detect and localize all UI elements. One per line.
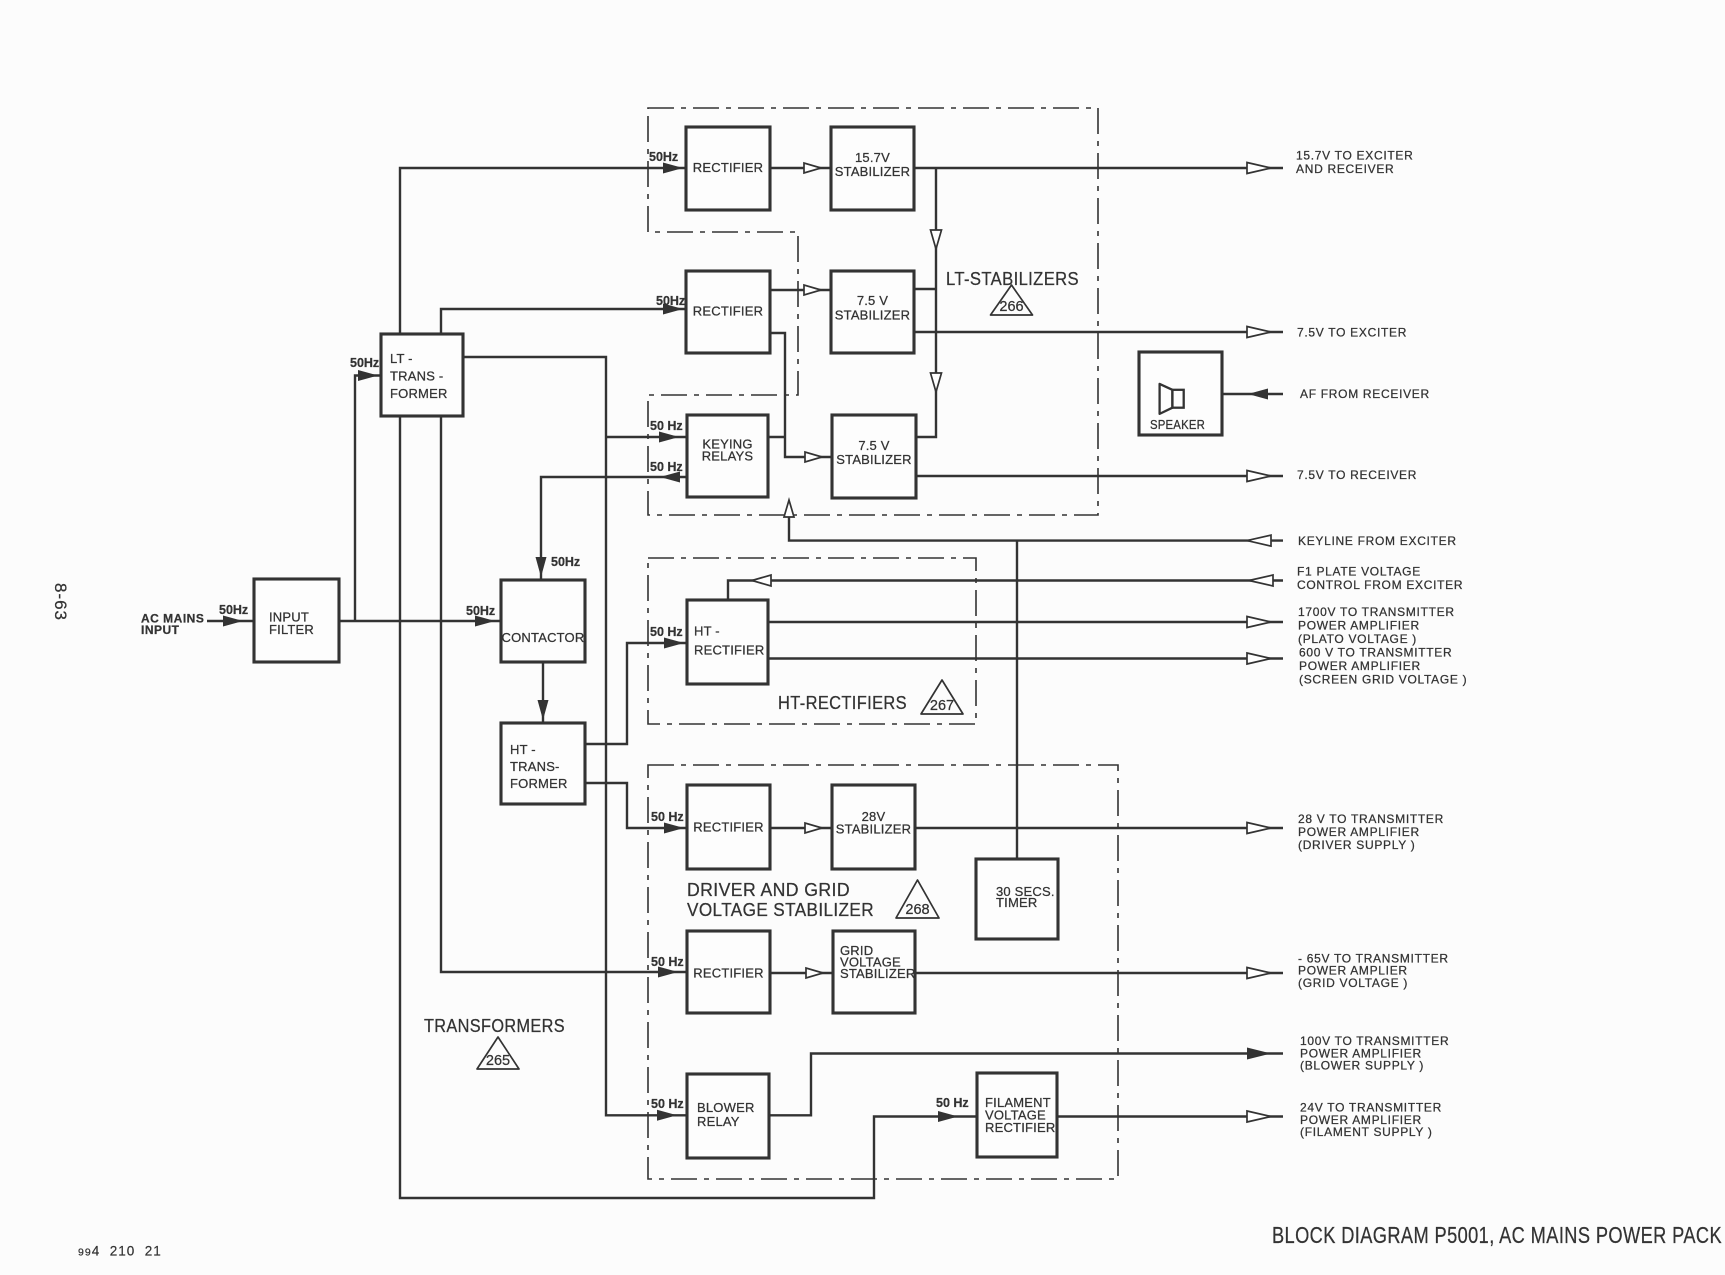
label AF FROM RECEIVER [1300, 387, 1430, 401]
wire 28V STABILIZER output [915, 823, 1283, 834]
label 50Hz at KEYING RELAYS lower [650, 460, 683, 474]
wire BLOWER RELAY output 100V [769, 1048, 1283, 1116]
block rectifier (7.5V chain) [686, 271, 770, 353]
block KEYING RELAYS [687, 415, 768, 497]
svg-text:F1 PLATE VOLTAGE: F1 PLATE VOLTAGE [1297, 565, 1421, 579]
label KEYLINE FROM EXCITER [1298, 534, 1457, 548]
block FILAMENT VOLTAGE RECTIFIER [977, 1073, 1057, 1157]
wire daisy chain 15.7V output down to 7.5V stabilizers [914, 168, 942, 437]
svg-text:AF FROM RECEIVER: AF FROM RECEIVER [1300, 387, 1430, 401]
document number 994 210 21 [78, 1244, 162, 1259]
wire HT-RECTIFIER output 600V [768, 653, 1283, 664]
wire rectifier to 7.5V STABILIZER upper [770, 285, 831, 295]
svg-text:STABILIZER: STABILIZER [835, 308, 910, 323]
label output 7.5V TO EXCITER [1297, 325, 1407, 339]
svg-text:267: 267 [930, 698, 954, 714]
block 15.7V STABILIZER [831, 127, 914, 210]
svg-text:1700V TO TRANSMITTER: 1700V TO TRANSMITTER [1298, 605, 1455, 619]
label output 100V TO TRANSMITTER POWER AMPLIFIER (BLOWER SUPPLY) [1300, 1034, 1449, 1072]
svg-text:HT -: HT - [694, 624, 720, 639]
svg-text:50 Hz: 50 Hz [650, 460, 683, 474]
wire 7.5V STABILIZER output to exciter [914, 327, 1283, 338]
svg-text:STABILIZER: STABILIZER [840, 966, 915, 981]
svg-text:50 Hz: 50 Hz [936, 1096, 969, 1110]
svg-text:994 210 21: 994 210 21 [78, 1244, 162, 1259]
svg-text:BLOCK DIAGRAM P5001, AC MAINS: BLOCK DIAGRAM P5001, AC MAINS POWER PACK [1272, 1222, 1722, 1248]
svg-text:CONTROL FROM EXCITER: CONTROL FROM EXCITER [1297, 578, 1463, 592]
svg-text:TRANSFORMERS: TRANSFORMERS [424, 1016, 565, 1036]
label AC MAINS INPUT [141, 611, 204, 637]
svg-text:POWER AMPLIFIER: POWER AMPLIFIER [1298, 825, 1420, 839]
svg-text:(DRIVER SUPPLY ): (DRIVER SUPPLY ) [1298, 838, 1415, 852]
svg-text:266: 266 [999, 299, 1023, 315]
wire F1 PLATE VOLTAGE CONTROL into HT-RECTIFIER [728, 575, 1283, 600]
wire rectifier to 28V STABILIZER [770, 823, 832, 833]
svg-text:RELAYS: RELAYS [702, 449, 754, 464]
wire FILAMENT VOLTAGE RECTIFIER output 24V [1057, 1111, 1283, 1122]
wire LT-TRANSFORMER right to KEYING RELAYS and BLOWER RELAY [463, 357, 687, 1121]
label 50Hz at BLOWER RELAY input [651, 1097, 684, 1111]
block GRID VOLTAGE STABILIZER [833, 931, 915, 1013]
wire rectifier lower output via keying to second 7.5V STABILIZER [768, 333, 832, 462]
label group TRANSFORMERS [424, 1016, 565, 1036]
svg-text:STABILIZER: STABILIZER [835, 164, 910, 179]
wire AF FROM RECEIVER into speaker [1222, 389, 1283, 400]
wire 50Hz LT-TRANSFORMER top to rectifier (15.7V chain) [400, 163, 686, 335]
svg-text:(GRID VOLTAGE ): (GRID VOLTAGE ) [1298, 976, 1408, 990]
svg-text:FORMER: FORMER [510, 776, 568, 791]
label 50Hz at rectifier 7.5V chain [656, 294, 685, 308]
block LT-TRANSFORMER [381, 334, 463, 416]
svg-text:TIMER: TIMER [996, 895, 1037, 910]
triangle symbol 265 [477, 1037, 519, 1069]
svg-text:7.5V TO EXCITER: 7.5V TO EXCITER [1297, 325, 1407, 339]
page number 8-63 (rotated) [51, 583, 70, 621]
label 50Hz at grid rectifier input [651, 955, 684, 969]
svg-text:RECTIFIER: RECTIFIER [693, 966, 763, 981]
svg-text:50 Hz: 50 Hz [650, 419, 683, 433]
wire 50Hz branch up to LT-TRANSFORMER [355, 370, 381, 621]
svg-text:50 Hz: 50 Hz [651, 1097, 684, 1111]
triangle symbol 267 [921, 680, 963, 714]
triangle symbol 266 [991, 285, 1033, 315]
svg-text:50 Hz: 50 Hz [651, 810, 684, 824]
label 50Hz at CONTACTOR coil [551, 555, 580, 569]
block rectifier (grid chain) [687, 931, 770, 1013]
svg-text:50Hz: 50Hz [219, 603, 248, 617]
wire LT-TRANSFORMER bottom to grid rectifier [441, 416, 687, 978]
label output -65V TO TRANSMITTER POWER AMPLIER (GRID VOLTAGE) [1298, 951, 1449, 989]
wire HT-TRANSFORMER stub up to HT-RECTIFIER [585, 638, 687, 745]
svg-text:RECTIFIER: RECTIFIER [693, 160, 763, 175]
label output 1700V TO TRANSMITTER POWER AMPLIFIER (PLATO VOLTAGE) [1298, 605, 1455, 646]
wire LT-TRANSFORMER bottom to FILAMENT VOLTAGE RECTIFIER (24V chain) [400, 416, 977, 1198]
wire AC mains input into INPUT FILTER [207, 616, 254, 627]
label output 600V TO TRANSMITTER POWER AMPLIFIER (SCREEN GRID VOLTAGE) [1299, 645, 1467, 686]
label 50Hz at KEYING RELAYS input [650, 419, 683, 433]
label F1 PLATE VOLTAGE CONTROL FROM EXCITER [1297, 565, 1463, 593]
wire GRID VOLTAGE STABILIZER output [915, 968, 1283, 979]
svg-text:INPUT: INPUT [141, 623, 180, 637]
wire 50Hz INPUT FILTER to CONTACTOR [339, 616, 501, 627]
svg-text:POWER AMPLIFIER: POWER AMPLIFIER [1299, 659, 1421, 673]
group boundary DRIVER AND GRID VOLTAGE STABILIZER unit 268 (dash-dot box) [648, 765, 1118, 1179]
svg-text:7.5V TO RECEIVER: 7.5V TO RECEIVER [1297, 468, 1417, 482]
svg-text:AND RECEIVER: AND RECEIVER [1296, 162, 1394, 176]
svg-text:STABILIZER: STABILIZER [836, 822, 911, 837]
wire rectifier to GRID VOLTAGE STABILIZER [770, 968, 833, 978]
block HT-RECTIFIER [687, 600, 768, 684]
label 50Hz at rectifier 15.7V chain [649, 150, 678, 164]
block HT-TRANSFORMER [501, 723, 585, 804]
wire KEYING RELAYS to CONTACTOR coil [536, 472, 688, 581]
svg-text:50 Hz: 50 Hz [651, 955, 684, 969]
wire 50Hz LT-TRANSFORMER top to rectifier (7.5V chain) [441, 304, 686, 335]
svg-text:DRIVER AND GRID: DRIVER AND GRID [687, 880, 850, 900]
label 50Hz at HT-RECTIFIER input [650, 625, 683, 639]
svg-text:(BLOWER SUPPLY ): (BLOWER SUPPLY ) [1300, 1059, 1424, 1073]
svg-text:15.7V TO EXCITER: 15.7V TO EXCITER [1296, 149, 1413, 163]
svg-text:HT-RECTIFIERS: HT-RECTIFIERS [778, 693, 907, 713]
svg-text:RECTIFIER: RECTIFIER [985, 1120, 1055, 1135]
label 50Hz at LT-TRANSFORMER input [350, 356, 379, 370]
svg-text:SPEAKER: SPEAKER [1150, 418, 1205, 432]
label output 24V TO TRANSMITTER POWER AMPLIFIER (FILAMENT SUPPLY) [1300, 1101, 1442, 1139]
wire rectifier to 15.7V STABILIZER [770, 163, 831, 173]
svg-text:(SCREEN GRID VOLTAGE ): (SCREEN GRID VOLTAGE ) [1299, 673, 1467, 687]
svg-text:15.7V: 15.7V [855, 150, 890, 165]
block SPEAKER with speaker icon [1139, 352, 1222, 435]
svg-text:(PLATO VOLTAGE ): (PLATO VOLTAGE ) [1298, 632, 1417, 646]
label 50Hz at FILAMENT VOLTAGE RECTIFIER input [936, 1096, 969, 1110]
block rectifier (28V chain) [687, 785, 770, 869]
svg-text:RELAY: RELAY [697, 1114, 740, 1129]
svg-text:7.5 V: 7.5 V [858, 438, 889, 453]
triangle symbol 268 [896, 880, 939, 918]
label group LT-STABILIZERS [946, 269, 1079, 289]
svg-text:RECTIFIER: RECTIFIER [694, 643, 764, 658]
svg-text:FILTER: FILTER [269, 622, 314, 637]
svg-text:50Hz: 50Hz [649, 150, 678, 164]
svg-text:50Hz: 50Hz [350, 356, 379, 370]
group boundary HT-RECTIFIERS unit 267 (dash-dot box) [648, 558, 976, 724]
svg-text:RECTIFIER: RECTIFIER [693, 304, 763, 319]
title BLOCK DIAGRAM P5001, AC MAINS POWER PACK [1272, 1222, 1722, 1248]
wire HT-RECTIFIER output 1700V [768, 617, 1283, 628]
svg-text:TRANS -: TRANS - [390, 369, 443, 384]
svg-text:TRANS-: TRANS- [510, 759, 560, 774]
svg-text:268: 268 [905, 902, 929, 918]
label group HT-RECTIFIERS [778, 693, 907, 713]
block BLOWER RELAY [687, 1074, 769, 1158]
wire 15.7V STABILIZER output [914, 163, 1283, 174]
svg-text:KEYLINE FROM EXCITER: KEYLINE FROM EXCITER [1298, 534, 1457, 548]
label output 7.5V TO RECEIVER [1297, 468, 1417, 482]
svg-text:FORMER: FORMER [390, 386, 448, 401]
svg-text:50 Hz: 50 Hz [650, 625, 683, 639]
group boundary LT-STABILIZERS unit 266 (dash-dot box with left notch) [648, 108, 1098, 515]
svg-text:50Hz: 50Hz [551, 555, 580, 569]
wire KEYLINE FROM EXCITER to keying relays and 30 secs timer [784, 500, 1283, 859]
svg-text:7.5 V: 7.5 V [857, 293, 888, 308]
block 7.5V STABILIZER (receiver) [832, 415, 916, 498]
wire HT-TRANSFORMER stub down to 28V rectifier [585, 783, 687, 834]
label output 15.7V TO EXCITER AND RECEIVER [1296, 149, 1413, 177]
svg-text:50Hz: 50Hz [656, 294, 685, 308]
svg-text:28 V TO TRANSMITTER: 28 V TO TRANSMITTER [1298, 812, 1444, 826]
svg-text:600 V TO TRANSMITTER: 600 V TO TRANSMITTER [1299, 645, 1452, 659]
svg-text:BLOWER: BLOWER [697, 1100, 755, 1115]
svg-text:(FILAMENT SUPPLY ): (FILAMENT SUPPLY ) [1300, 1125, 1433, 1139]
label 50Hz at CONTACTOR input [466, 604, 495, 618]
label group DRIVER AND GRID VOLTAGE STABILIZER [687, 880, 874, 920]
label 50Hz at AC input [219, 603, 248, 617]
label output 28V TO TRANSMITTER POWER AMPLIFIER (DRIVER SUPPLY) [1298, 812, 1444, 852]
label 50Hz at 28V rectifier input [651, 810, 684, 824]
svg-text:CONTACTOR: CONTACTOR [502, 630, 585, 645]
svg-text:STABILIZER: STABILIZER [836, 452, 911, 467]
svg-text:HT -: HT - [510, 742, 536, 757]
svg-text:8-63: 8-63 [51, 583, 70, 621]
block INPUT FILTER [254, 579, 339, 662]
wire CONTACTOR to HT-TRANSFORMER [538, 662, 549, 723]
svg-text:LT -: LT - [390, 351, 413, 366]
wire 7.5V STABILIZER output to receiver [916, 471, 1283, 482]
svg-text:VOLTAGE STABILIZER: VOLTAGE STABILIZER [687, 900, 874, 920]
block 28V STABILIZER [832, 785, 915, 869]
block 30 SECS TIMER [976, 859, 1058, 939]
svg-text:265: 265 [486, 1053, 510, 1069]
wire branch to KEYING RELAYS first input [606, 432, 687, 443]
block CONTACTOR [501, 580, 585, 662]
svg-text:RECTIFIER: RECTIFIER [693, 820, 763, 835]
block rectifier (15.7V chain) [686, 127, 770, 210]
block 7.5V STABILIZER (exciter) [831, 271, 914, 353]
svg-text:50Hz: 50Hz [466, 604, 495, 618]
svg-text:POWER AMPLIFIER: POWER AMPLIFIER [1298, 619, 1420, 633]
